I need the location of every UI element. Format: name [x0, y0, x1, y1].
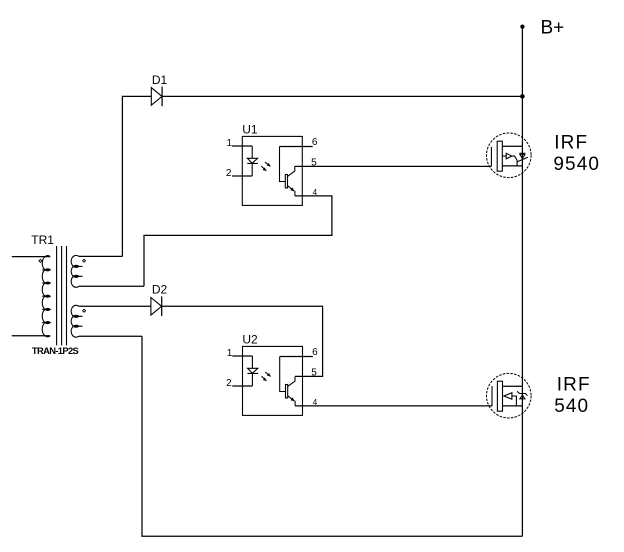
svg-text:2: 2 [226, 378, 232, 389]
wire B+ rail vertical [521, 27, 523, 537]
U2 light arrow a [265, 372, 271, 376]
U2 pin1 wire [232, 355, 252, 357]
U1 pin2 wire [232, 175, 252, 177]
secondary2 polarity dot [83, 309, 86, 312]
U2 emitter [288, 396, 295, 401]
Q1 channel plate [497, 141, 502, 171]
wire D1 cathode to rail [162, 95, 522, 97]
diode D1 [151, 87, 162, 107]
Q2 gate bar [491, 386, 493, 406]
U1 LED [247, 146, 258, 176]
Q2 body diode [517, 391, 527, 395]
secondary2 winding [71, 305, 79, 337]
Q1 substrate arrow [502, 155, 506, 157]
svg-text:1: 1 [227, 348, 233, 359]
svg-text:D1: D1 [152, 73, 168, 87]
secondary2 ticks [75, 316, 83, 326]
primary bottom lead [12, 335, 50, 337]
svg-text:U1: U1 [242, 123, 258, 137]
wire sec1-top to D1 anode [79, 96, 151, 256]
Q2 envelope circle [487, 373, 532, 418]
secondary1 bottom lead [79, 285, 144, 287]
svg-text:TR1: TR1 [31, 233, 54, 247]
Q1 gate bar [490, 147, 492, 166]
svg-text:D2: D2 [152, 283, 168, 297]
svg-text:IRF: IRF [554, 133, 588, 154]
core line 1 [56, 246, 58, 345]
junction dot at rail [520, 94, 525, 99]
wire U1 pin4 to sec1 bottom [144, 196, 332, 286]
svg-text:B+: B+ [541, 18, 565, 39]
U2 pin2 wire [232, 385, 252, 387]
primary winding [42, 256, 50, 337]
svg-text:2: 2 [226, 168, 232, 179]
svg-text:U2: U2 [242, 333, 258, 347]
svg-text:IRF: IRF [557, 375, 591, 396]
U2 collector [288, 376, 295, 386]
primary polarity dot [39, 259, 42, 262]
secondary1 polarity dot [83, 259, 86, 262]
svg-text:5: 5 [311, 368, 317, 379]
U1 base vertical [280, 147, 286, 182]
Q2 channel plate [497, 381, 502, 411]
opto U1 [226, 136, 318, 205]
wire bottom return [142, 336, 522, 536]
svg-text:9540: 9540 [553, 154, 600, 175]
secondary1 winding [71, 255, 79, 287]
primary top lead [12, 256, 50, 258]
wire sec2-top to D2 anode [79, 305, 151, 307]
U1 pin6 wire [280, 146, 313, 148]
U1 body [242, 136, 302, 205]
secondary2 bottom lead [79, 335, 142, 337]
opto U2 [226, 346, 318, 415]
wire D2 cathode to U2 pin5 [162, 306, 323, 376]
secondary1 ticks [75, 266, 83, 276]
Q1 source lead [502, 145, 522, 147]
wire U1 pin5 to Q1 gate [295, 165, 492, 167]
wire U2 pin4 to Q2 gate [295, 405, 492, 407]
diode D2 [151, 296, 162, 316]
svg-text:TRAN-1P2S: TRAN-1P2S [32, 345, 79, 356]
svg-text:6: 6 [312, 137, 318, 148]
U2 base vertical [280, 357, 286, 392]
primary winding ticks [42, 270, 50, 323]
U2 body [243, 346, 303, 415]
U2 pin6 wire [280, 356, 313, 358]
Q2 drain lead [503, 385, 523, 387]
U2 LED [248, 356, 259, 386]
U1 phototransistor base bar [285, 175, 287, 188]
svg-text:540: 540 [554, 396, 589, 417]
U1 light arrow b [261, 166, 266, 171]
U2 light arrow b [262, 376, 267, 381]
core line 3 [66, 246, 68, 345]
Q1 body diode [520, 152, 526, 154]
Q1 envelope circle [487, 133, 532, 178]
core line 2 [61, 246, 63, 345]
Q1 drain lead [502, 165, 522, 167]
U1 collector [288, 166, 295, 176]
U1 light arrow a [265, 162, 271, 166]
svg-text:6: 6 [312, 347, 318, 358]
Q2 substrate arrow [504, 393, 512, 400]
Q2 source lead [503, 405, 523, 407]
svg-text:1: 1 [227, 138, 233, 149]
U1 emitter [288, 186, 295, 191]
transformer TR1 [12, 246, 144, 345]
mosfet Q1 IRF9540 [487, 133, 532, 178]
node B+ terminal [520, 25, 524, 29]
mosfet Q2 IRF540 [487, 373, 532, 418]
U1 pin1 wire [232, 145, 252, 147]
U2 phototransistor base bar [286, 385, 288, 398]
